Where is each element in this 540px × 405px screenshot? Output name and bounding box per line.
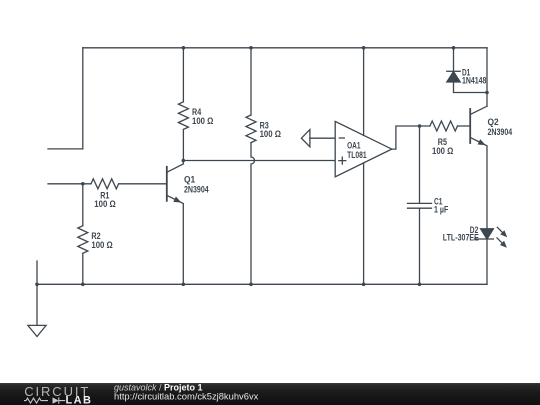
svg-text:2N3904: 2N3904 (184, 184, 209, 194)
wire D2 bottom lead (486, 239, 488, 284)
op-amp OA1 minus sign (339, 137, 344, 139)
wire R2 top lead (82, 184, 84, 226)
LED D2 cathode bar (481, 238, 494, 240)
junction R1 R2 input (81, 182, 85, 186)
junction op-amp V- rail (362, 283, 366, 287)
wire R1 to Q1 base (119, 183, 167, 185)
resistor R2 (78, 226, 88, 254)
wire R3 bottom lead with crossover hop (251, 143, 255, 285)
junction top rail D1 (452, 46, 456, 50)
resistor R4 (178, 102, 188, 130)
diode D1 cathode bar (447, 70, 460, 72)
junction top rail R4 (182, 46, 186, 50)
transistor Q2 collector (470, 106, 487, 114)
LED D2 triangle (481, 229, 494, 239)
junction D1 Q2 collector (485, 91, 489, 95)
junction ground rail (35, 283, 39, 287)
LED D2 label dash (475, 238, 480, 240)
ground symbol (28, 325, 46, 336)
wire R4 top lead (182, 48, 184, 102)
svg-text:Q1: Q1 (184, 174, 195, 184)
LED D2 light arrow 1 (497, 227, 502, 232)
logo resistor zigzag and diode (24, 397, 65, 403)
capacitor C1 plates (408, 203, 432, 208)
transistor Q1 emitter (167, 195, 184, 284)
transistor Q1 base bar (166, 167, 168, 201)
wire op-amp output (392, 126, 430, 149)
junction R3 rail (249, 283, 253, 287)
svg-text:1N4148: 1N4148 (462, 75, 486, 85)
LED D2 light arrow 2 (497, 238, 502, 243)
junction Q1 emitter rail (182, 283, 186, 287)
op-amp U1 OA1 triangle (335, 121, 392, 176)
footer bar (0, 383, 540, 405)
junction top rail op-amp supply (362, 46, 366, 50)
svg-text:LAB: LAB (66, 394, 93, 405)
diode D1 triangle (447, 72, 460, 82)
svg-text:100 Ω: 100 Ω (91, 240, 112, 250)
wire R2 bottom lead (82, 253, 84, 284)
wire R5 to Q2 base (458, 125, 471, 127)
wire op-amp V- supply (363, 163, 365, 284)
wire R3 top lead (250, 48, 252, 115)
transistor Q2 base bar (469, 109, 471, 143)
transistor Q1 collector (167, 161, 184, 173)
node flag at op-amp inverting input (301, 130, 310, 147)
wire op-amp V+ supply (363, 48, 365, 136)
junction R2 rail (81, 283, 85, 287)
wire left vertical from rail (82, 48, 84, 149)
svg-text:100 Ω: 100 Ω (94, 199, 115, 209)
svg-text:Q2: Q2 (488, 117, 499, 127)
junction top rail R3 (249, 46, 253, 50)
junction Q1 collector R4 (182, 159, 186, 163)
wire mid horizontal Q1 collector to op-amp plus input (183, 160, 335, 162)
wire R4 bottom lead (182, 129, 184, 160)
resistor R5 (430, 121, 458, 131)
svg-text:LTL-307EE: LTL-307EE (443, 232, 479, 242)
svg-text:100 Ω: 100 Ω (260, 129, 281, 139)
wire bottom rail (37, 283, 487, 285)
junction C1 rail (418, 283, 422, 287)
resistor R3 (246, 115, 256, 143)
wire input to R1 (48, 183, 91, 185)
resistor R1 (91, 179, 119, 189)
transistor Q1 emitter arrow (173, 197, 181, 203)
svg-text:100 Ω: 100 Ω (432, 146, 453, 156)
wire D1 bottom lead to Q2 collector net (454, 82, 488, 93)
svg-text:100 Ω: 100 Ω (192, 116, 213, 126)
svg-text:TL081: TL081 (347, 150, 367, 160)
wire flag to op-amp minus input (310, 137, 335, 139)
wire left input stub upper (48, 148, 83, 150)
wire top rail right vertical to Q2 collector (486, 48, 488, 106)
wire top rail (83, 47, 487, 49)
wire D1 top lead (453, 48, 455, 72)
svg-text:1 µF: 1 µF (434, 205, 449, 215)
svg-text:OA1: OA1 (347, 140, 360, 150)
transistor Q2 emitter arrow (478, 139, 486, 145)
svg-text:2N3904: 2N3904 (488, 127, 513, 137)
op-amp OA1 plus sign (339, 157, 346, 164)
wire C1 bottom lead (419, 208, 421, 284)
junction R5 C1 (418, 124, 422, 128)
wire ground stub (36, 261, 38, 327)
wire C1 top lead (419, 126, 421, 203)
svg-text:http://circuitlab.com/ck5zj8ku: http://circuitlab.com/ck5zj8kuhv6vx (114, 390, 259, 401)
transistor Q2 emitter (470, 138, 487, 229)
